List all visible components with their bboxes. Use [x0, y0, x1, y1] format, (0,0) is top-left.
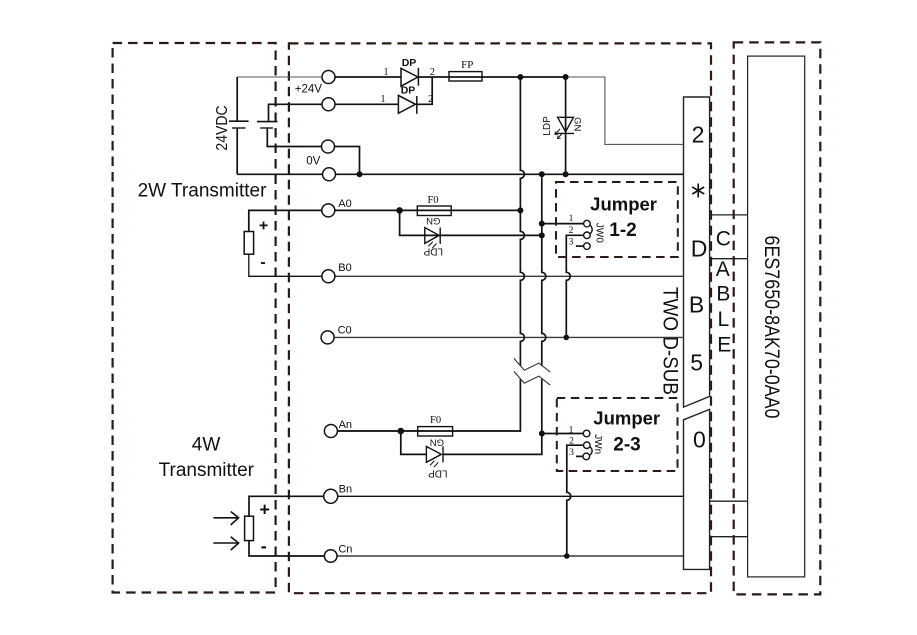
- svg-text:B0: B0: [338, 262, 351, 274]
- diode DP1 cathode bar: [417, 68, 419, 86]
- terminal A0: [322, 204, 335, 217]
- svg-text:F0: F0: [430, 415, 441, 426]
- 4W input arrow 2: [213, 537, 238, 550]
- svg-text:0V: 0V: [306, 156, 320, 168]
- svg-text:4W: 4W: [192, 435, 221, 456]
- junction An LED tap: [398, 428, 405, 435]
- junction 0V terminal join: [357, 171, 363, 177]
- svg-text:FP: FP: [461, 59, 473, 71]
- wire B0 row to connector: [335, 275, 684, 277]
- bus break symbol stroke 2: [514, 371, 550, 385]
- +24V bus vertical with hops: [520, 77, 524, 366]
- svg-text:-: -: [261, 536, 267, 556]
- wire A0 row through fuse F0 to +24V bus: [335, 209, 521, 211]
- svg-text:F0: F0: [427, 195, 438, 206]
- svg-text:GN: GN: [426, 215, 440, 226]
- svg-text:DP: DP: [402, 57, 417, 69]
- wire JWn pin2 down to Cn: [567, 445, 584, 556]
- 0V bus below break to An LED line: [443, 379, 542, 454]
- fuse F0 (4W loop): [418, 427, 453, 436]
- terminal Cn: [324, 550, 337, 563]
- svg-text:24VDC: 24VDC: [214, 105, 231, 150]
- junction A0 LED tap: [396, 207, 403, 214]
- svg-text:1-2: 1-2: [609, 220, 636, 241]
- wire +24V rail battery to terminal 1: [237, 76, 322, 78]
- junction 0V bus start: [539, 171, 545, 177]
- svg-text:2W Transmitter: 2W Transmitter: [138, 181, 267, 202]
- connector pin *: [692, 184, 704, 198]
- junction LED branch top: [563, 74, 569, 80]
- wire 4W transmitter minus to Cn: [249, 541, 324, 556]
- svg-text:B: B: [689, 292, 704, 318]
- svg-text:+: +: [259, 217, 268, 234]
- JWn pin3 stub: [576, 455, 583, 457]
- svg-text:1: 1: [380, 94, 385, 105]
- svg-text:1: 1: [569, 425, 574, 435]
- wire 2W transmitter minus to B0: [249, 254, 322, 276]
- bus break symbol stroke 1: [514, 358, 550, 372]
- jumper JW0 pins: [584, 220, 591, 249]
- svg-text:Bn: Bn: [339, 484, 352, 496]
- wire An LED branch: [401, 431, 427, 454]
- svg-text:DP: DP: [401, 85, 416, 97]
- svg-text:L: L: [718, 308, 730, 331]
- svg-text:GN: GN: [572, 117, 583, 131]
- svg-text:LDP: LDP: [428, 467, 448, 478]
- junction A0 LED return to 0V bus: [539, 232, 545, 238]
- fuse F0 (2W loop): [417, 206, 451, 216]
- wire 4W transmitter plus to Bn: [249, 496, 324, 516]
- svg-text:TWO D-SUB: TWO D-SUB: [658, 287, 681, 395]
- junction LED cathode 0V: [563, 171, 569, 177]
- wire terminal1 to diode DP1: [335, 76, 401, 78]
- svg-text:2-3: 2-3: [613, 434, 640, 455]
- cable wire connector to module (fourth): [710, 536, 748, 538]
- wire DP2 cathode up to node: [417, 77, 432, 104]
- PLC dashed box (right): [734, 42, 821, 594]
- svg-text:Cn: Cn: [338, 543, 352, 555]
- JW0 pin3 stub: [576, 245, 584, 247]
- svg-text:D: D: [691, 236, 708, 262]
- cable wire connector to module (third): [710, 500, 748, 502]
- svg-text:LDP: LDP: [423, 246, 443, 257]
- junction +24V bus top: [517, 74, 523, 80]
- svg-text:2: 2: [569, 226, 574, 236]
- svg-text:GN: GN: [430, 437, 444, 448]
- diode DP2 cathode bar: [416, 96, 418, 114]
- LED LDP/GN (power): [555, 117, 574, 138]
- wire DP1 cathode to fuse FP and +24V bus: [418, 76, 565, 78]
- junction JWn pin1 to 0V bus: [539, 431, 545, 437]
- wire battery plus vertical: [236, 77, 238, 174]
- 2W transmitter resistor: [244, 232, 253, 255]
- svg-text:A0: A0: [338, 198, 351, 210]
- jumper JWn 2-3 arc: [590, 446, 592, 455]
- svg-text:JW0: JW0: [594, 223, 605, 243]
- terminal 0V (upper): [322, 140, 335, 153]
- battery 24VDC cell 2 negative plate: [260, 127, 273, 129]
- svg-text:LDP: LDP: [542, 116, 553, 136]
- junction C0 to JW0 pin2: [564, 335, 570, 341]
- connector body bottom section: [684, 409, 710, 569]
- svg-text:5: 5: [690, 350, 703, 376]
- svg-text:1: 1: [569, 214, 574, 224]
- 0V bus vertical with hops: [542, 174, 546, 366]
- svg-text:3: 3: [569, 448, 574, 458]
- LED GN/LDP (4W loop, rotated 180): [426, 446, 443, 467]
- fuse FP: [449, 72, 482, 81]
- svg-text:C0: C0: [338, 324, 352, 336]
- module 6ES7650-8AK70-0AA0 box: [748, 56, 805, 577]
- wire terminal3 to 0V rail: [335, 147, 360, 175]
- jumper JW0 box: [556, 182, 678, 257]
- svg-text:Transmitter: Transmitter: [159, 460, 255, 481]
- wire JW0 pin2 down to C0: [566, 235, 583, 337]
- wire JW0 pin1 to 0V bus: [542, 223, 584, 225]
- wire battery cell2 to terminal2: [269, 104, 323, 121]
- junction JW0 pin1 to 0V bus: [539, 221, 545, 227]
- terminal B0: [322, 270, 335, 283]
- diode DP1 triangle: [401, 68, 418, 86]
- svg-text:C: C: [716, 228, 731, 251]
- +24V bus below break to An row: [337, 379, 520, 431]
- wire terminal2 to diode DP2: [335, 103, 398, 105]
- svg-text:-: -: [260, 254, 265, 271]
- 4W input arrow 1: [213, 512, 238, 551]
- wire 2W transmitter plus to A0: [249, 210, 322, 231]
- svg-text:B: B: [716, 282, 730, 305]
- svg-text:Jumper: Jumper: [593, 408, 660, 429]
- 4W transmitter resistor: [245, 516, 254, 540]
- svg-text:JWn: JWn: [592, 434, 603, 454]
- junction A0 row to +24V bus: [517, 207, 523, 213]
- svg-text:+: +: [259, 500, 270, 520]
- terminal An: [324, 425, 337, 438]
- svg-text:Jumper: Jumper: [590, 194, 657, 215]
- wire C0 row to connector: [334, 336, 683, 338]
- wire +24V to pin2 entry: [566, 77, 684, 144]
- cable wire connector to module (pin2 side): [710, 214, 748, 216]
- svg-text:0: 0: [693, 427, 706, 453]
- battery 24VDC cell 2 positive plate: [257, 121, 278, 123]
- battery 24VDC cell 1 positive plate: [229, 120, 249, 122]
- wire Bn row to connector: [337, 495, 683, 497]
- svg-text:2: 2: [430, 67, 435, 78]
- LED LDP bus vertical: [565, 77, 567, 174]
- jumper JWn pins: [583, 430, 590, 460]
- svg-text:3: 3: [569, 237, 574, 247]
- svg-text:E: E: [717, 333, 731, 356]
- terminal Bn: [324, 489, 338, 503]
- diode DP2 triangle: [398, 95, 415, 113]
- svg-text:2: 2: [569, 437, 574, 447]
- junction Cn to JWn pin2: [564, 553, 570, 559]
- svg-text:6ES7650-8AK70-0AA0: 6ES7650-8AK70-0AA0: [760, 236, 783, 419]
- terminal 0V (lower): [323, 168, 336, 181]
- connector label TWO D-SUB: [658, 287, 681, 395]
- svg-text:An: An: [339, 419, 352, 431]
- cable wire connector to module (second): [710, 258, 748, 260]
- terminal +24V (2): [322, 98, 335, 111]
- svg-text:2: 2: [428, 94, 433, 105]
- svg-text:+24V: +24V: [295, 84, 323, 96]
- LED GN/LDP (2W loop, rotated 180): [425, 228, 440, 249]
- interface module dashed box (middle): [289, 43, 711, 593]
- wire 0V rail: [237, 173, 683, 175]
- svg-text:1: 1: [383, 67, 388, 78]
- wire Cn row to connector: [337, 555, 683, 557]
- wire battery cell2 bottom to terminal3: [267, 128, 321, 147]
- jumper JWn box: [557, 398, 678, 471]
- transmitter enclosure dashed box (left): [113, 43, 276, 593]
- wire A0 LED branch: [400, 210, 542, 235]
- connector TWO D-SUB body top section: [684, 97, 710, 407]
- battery 24VDC cell 1 negative plate: [232, 127, 246, 129]
- svg-text:A: A: [716, 258, 730, 281]
- wire An row: [337, 430, 520, 432]
- wire JWn pin1 to 0V bus: [542, 433, 583, 435]
- svg-text:2: 2: [692, 122, 705, 148]
- terminal +24V (1): [322, 71, 335, 84]
- terminal C0: [321, 331, 334, 344]
- jumper JW0 1-2 arc: [590, 225, 592, 235]
